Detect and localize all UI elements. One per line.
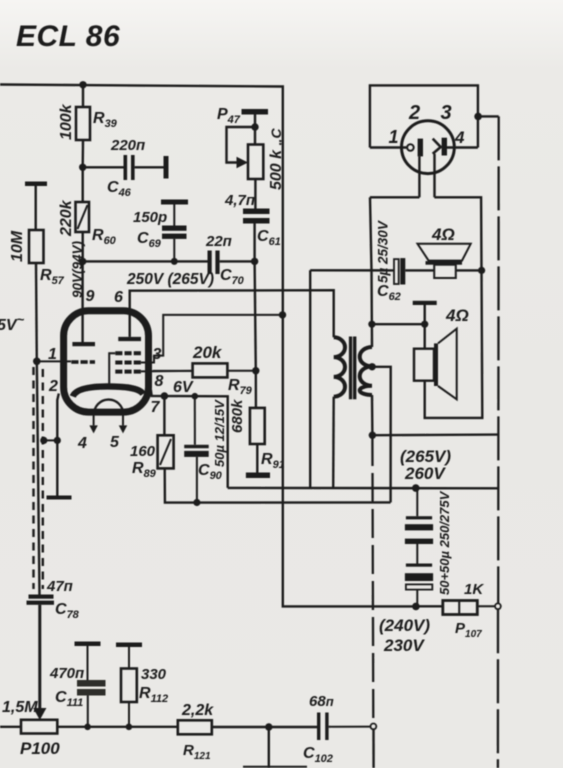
svg-text:6: 6: [114, 289, 123, 306]
capacitor C102: [303, 693, 334, 765]
wire R39 to R60: [81, 140, 84, 167]
node junction P47: [251, 123, 258, 130]
node junction 260V: [412, 484, 420, 492]
wire C62 to speaker 1: [405, 269, 434, 271]
node junction C90 tap: [192, 393, 199, 400]
svg-text:230V: 230V: [383, 636, 425, 655]
node junction secondary mid tap: [368, 363, 375, 370]
terminal bar speaker 2: [413, 301, 437, 305]
wire R107 to chassis circle: [477, 605, 495, 607]
wiper wire P47: [227, 127, 256, 163]
resistor R89: [130, 396, 174, 480]
DIN connector box: [370, 85, 478, 147]
svg-text:(240V): (240V): [379, 616, 430, 635]
ground bar R91: [246, 473, 270, 479]
wire R91 to ground: [256, 444, 258, 473]
wire speaker box left edge / secondary line: [370, 197, 372, 435]
svg-text:1K: 1K: [464, 581, 484, 598]
svg-text:50+50µ 250/275V: 50+50µ 250/275V: [437, 490, 452, 595]
node junction grid 1: [33, 358, 41, 366]
node junction DIN chassis: [474, 113, 482, 121]
wire secondary tap to feedback: [372, 367, 391, 503]
potentiometer P47 body: [248, 145, 263, 180]
filter capacitor 50+50u upper: [405, 488, 433, 544]
wire g3 tie to cathode: [109, 353, 115, 386]
triode anode wire pin 9: [81, 261, 83, 342]
cathode dome: [73, 386, 143, 396]
node junction R112: [126, 724, 133, 731]
node junction C61 bottom: [251, 258, 258, 265]
node junction R79 right: [252, 367, 259, 374]
transformer primary winding: [334, 337, 345, 396]
wire to C102: [269, 726, 317, 728]
wire R60 to anode node, 90V label: [81, 232, 83, 261]
DIN pin1 open circle: [407, 144, 414, 151]
terminal bar C111: [75, 642, 101, 647]
capacitor C46: [107, 137, 145, 199]
chassis dashed line right: [497, 116, 500, 768]
chassis connection circle C102: [371, 724, 377, 730]
wire C102 to chassis point: [329, 726, 371, 728]
DIN pin1 contact bar: [418, 139, 423, 157]
svg-text:160: 160: [130, 443, 156, 460]
terminal bar C46: [164, 156, 169, 179]
wire top rail to g2 supply (down right side to 230V node): [0, 85, 416, 607]
wire bottom rail left: [0, 726, 178, 728]
bottom edge stub: [243, 766, 307, 768]
wire DIN pin4 right: [447, 146, 478, 148]
svg-text:220п: 220п: [110, 137, 145, 154]
node junction g2 line: [279, 311, 286, 318]
wire pot to C61: [254, 179, 256, 209]
resistor R79: [153, 343, 256, 397]
svg-text:470п: 470п: [49, 665, 84, 682]
node junction C111: [84, 724, 91, 731]
wire junction down to edge: [268, 727, 270, 768]
DIN pin4 contact bar: [442, 138, 447, 156]
terminal bar R57 top: [25, 182, 47, 187]
wire speaker box top right and right edge: [425, 197, 483, 418]
wire speaker 1 right: [456, 269, 482, 271]
svg-text:4: 4: [454, 128, 465, 147]
wire pin 2 to ground: [57, 394, 59, 496]
svg-text:2: 2: [48, 378, 58, 395]
svg-text:ECL 86: ECL 86: [16, 20, 120, 53]
wire g2 to pin 3 riser: [141, 315, 283, 363]
node junction triode anode: [79, 258, 86, 265]
wire speaker box top left: [370, 196, 420, 198]
wire C46 to terminal: [135, 166, 164, 168]
svg-text:4Ω: 4Ω: [431, 225, 455, 244]
speaker 2: [414, 306, 469, 399]
svg-text:3: 3: [441, 102, 452, 124]
shield dashed left: [32, 367, 34, 589]
capacitor C70: [205, 233, 245, 287]
wire chassis stub bottom: [372, 729, 375, 768]
wire to R57: [35, 186, 37, 230]
svg-text:2,2k: 2,2k: [181, 702, 214, 719]
svg-text:47п: 47п: [46, 578, 73, 595]
svg-text:250V (265V): 250V (265V): [126, 271, 214, 288]
pentode grid g1 dashes: [115, 370, 141, 374]
node junction speaker2 tap: [368, 321, 375, 328]
capacitor C61: [224, 192, 281, 261]
wire C62 left: [310, 269, 394, 272]
resistor R112: [121, 647, 168, 727]
DIN pin4 arrow: [433, 139, 441, 154]
pentode grid g2 dashes: [115, 361, 141, 365]
wire R121 to junction: [212, 726, 269, 728]
svg-text:20k: 20k: [192, 343, 223, 362]
svg-text:680k: 680k: [229, 399, 246, 433]
wire C61 node down to R91: [255, 261, 256, 408]
svg-text:1,5M: 1,5M: [2, 699, 38, 716]
svg-text:1: 1: [48, 346, 57, 363]
svg-text:4: 4: [77, 435, 87, 452]
wiper arrow P47: [237, 157, 249, 168]
resistor R121: [178, 702, 214, 762]
wire 230V to R107: [416, 605, 443, 607]
wire anode rail right part: [220, 260, 255, 262]
node junction speaker2: [421, 321, 428, 328]
node junction secondary bottom: [369, 432, 376, 439]
wire shield to cathode ground: [44, 439, 58, 441]
shield dashed right: [42, 369, 44, 589]
capacitor C111: [49, 646, 106, 727]
capacitor C78: [27, 578, 80, 621]
capacitor C62: [376, 220, 406, 303]
wire secondary bottom to chassis: [372, 433, 498, 436]
svg-text:5µ 25/30V: 5µ 25/30V: [376, 220, 391, 283]
resistor R39: [76, 107, 90, 140]
svg-text:10M: 10M: [9, 230, 26, 262]
DIN connector circle: [402, 121, 455, 174]
svg-text:P100: P100: [20, 739, 60, 758]
svg-text:8: 8: [155, 373, 164, 390]
pentode anode plate and pin 6 wire: [118, 290, 333, 341]
node junction C46 tap: [79, 164, 86, 171]
pentode grid g3 dashes: [115, 351, 141, 355]
resistor R107 1K: [443, 581, 485, 640]
svg-text:1: 1: [389, 127, 399, 147]
filter capacitor 50+50u lower: [405, 490, 452, 606]
potentiometer P47 top terminal bar: [242, 109, 269, 115]
node junction 230V: [412, 603, 420, 611]
svg-text:330: 330: [141, 666, 167, 683]
svg-text:9: 9: [86, 288, 95, 305]
chassis dashed line centre: [371, 437, 374, 723]
wire g1 pin 8 to R79: [141, 370, 193, 373]
svg-text:22п: 22п: [205, 233, 232, 250]
node junction C90 bottom: [193, 499, 200, 506]
wire DIN chassis link: [478, 115, 499, 117]
resistor R57: [9, 230, 65, 287]
node junction speaker1 box edge: [478, 267, 485, 274]
wire shielded core down to C78: [37, 361, 40, 594]
node junction pin2 wire: [54, 437, 61, 444]
wire pin1 grid: [37, 360, 71, 362]
svg-text:100k: 100k: [58, 103, 75, 140]
wire 260V rail: [228, 487, 499, 490]
svg-text:4Ω: 4Ω: [445, 306, 469, 325]
wire terminal to speaker2: [424, 305, 426, 349]
ground bar pin2: [47, 496, 72, 500]
svg-text:5: 5: [110, 434, 120, 451]
capacitor C90: [184, 396, 227, 502]
capacitor C69: [133, 200, 188, 262]
wire anode rail left part: [83, 260, 208, 262]
svg-text:7: 7: [151, 399, 161, 416]
node shield ground tap: [40, 437, 47, 444]
svg-text:220k: 220k: [58, 199, 75, 237]
wire R39 top: [82, 85, 84, 107]
node junction R89 tap: [161, 392, 169, 400]
tube ECL86 envelope: [64, 311, 149, 412]
wire DIN pin1: [370, 146, 407, 148]
wire R89 to feedback line: [165, 468, 391, 502]
speaker 1: [418, 225, 471, 278]
wire C78 to P100 wiper: [38, 605, 41, 710]
wire DIN pin1 down: [418, 156, 420, 197]
heater pin 4 arrow: [89, 415, 97, 434]
svg-text:4,7п: 4,7п: [224, 192, 255, 209]
heater arc: [94, 400, 123, 415]
svg-text:6V: 6V: [173, 379, 194, 396]
resistor R60: [58, 167, 117, 247]
svg-text:3: 3: [153, 346, 162, 363]
chassis connection circle 1k: [495, 603, 501, 609]
triode anode plate: [72, 342, 95, 346]
svg-text:260V: 260V: [404, 464, 446, 483]
svg-text:2: 2: [408, 102, 420, 124]
node junction bottom: [265, 723, 272, 730]
svg-text:150p: 150p: [133, 209, 167, 226]
svg-text:500 k „C: 500 k „C: [268, 128, 285, 190]
transformer core: [349, 337, 357, 400]
potentiometer P100: [2, 699, 60, 758]
node junction C69: [171, 258, 178, 265]
transformer secondary winding: [360, 347, 372, 395]
wire speaker2 link: [372, 323, 425, 325]
wire pin 7 cathode line: [151, 390, 228, 488]
wire DIN pin4 down: [433, 154, 435, 198]
resistor R91: [229, 399, 285, 471]
heater pin 5 arrow: [119, 414, 127, 434]
wire terminal to pot: [254, 115, 256, 145]
wire R57 down to grid node: [35, 263, 38, 361]
wire C62 branch down to rail: [309, 270, 311, 488]
terminal bar R112: [116, 643, 142, 648]
wire primary bottom to 260V rail: [332, 397, 335, 488]
arrow wiper P100: [33, 708, 46, 720]
node junction top: [79, 81, 86, 88]
svg-text:68п: 68п: [309, 693, 334, 710]
triode grid pin 1 dashes: [71, 360, 95, 364]
svg-text:50µ 12/15V: 50µ 12/15V: [212, 399, 227, 467]
wire to C46: [83, 166, 124, 168]
